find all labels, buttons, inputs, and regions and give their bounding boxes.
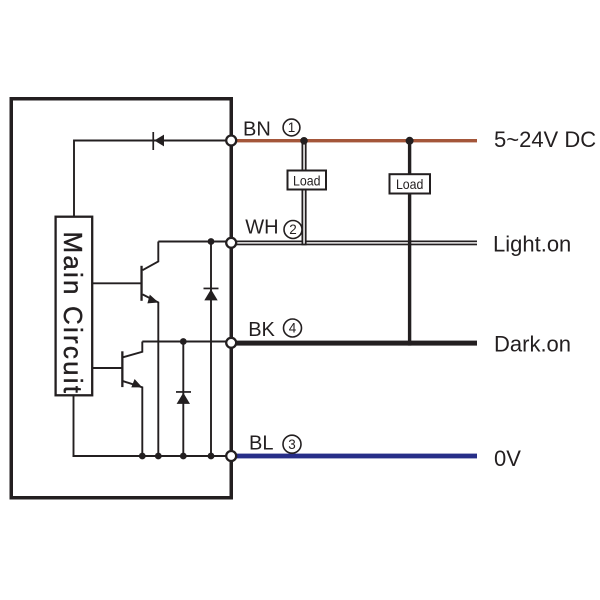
pin number 3	[283, 435, 301, 453]
diode D2 (WH clamp diode)	[204, 242, 219, 457]
label BN	[243, 118, 271, 140]
net label Light.on	[493, 232, 571, 257]
wire: main circuit bottom to BL rail	[73, 396, 75, 457]
outer device box	[11, 99, 231, 498]
blue wire (BL) 0V	[236, 454, 477, 459]
diode D1 (reverse-polarity protection on BN rail)	[152, 132, 164, 150]
junction dot on WH line	[208, 238, 215, 245]
terminal 4 (BK)	[226, 338, 236, 348]
terminal 3 (BL)	[226, 451, 236, 461]
svg-text:BL: BL	[249, 433, 273, 455]
pin number 2	[284, 221, 302, 239]
svg-text:2: 2	[289, 222, 297, 237]
net label 5~24V DC	[494, 127, 596, 152]
junction dots on BL rail	[139, 453, 215, 460]
wire: internal BK line from Q2 collector to terminal 4	[142, 341, 228, 343]
svg-text:Load: Load	[293, 172, 321, 188]
label BK	[248, 319, 275, 341]
junction dot on BK line	[180, 338, 187, 345]
transistor Q1 (upper NPN)	[140, 242, 158, 457]
wire: Q1 base from main circuit	[93, 282, 141, 284]
terminal 2 (WH)	[226, 238, 236, 248]
terminal 1 (BN)	[226, 136, 236, 146]
svg-text:1: 1	[288, 120, 296, 135]
svg-text:0V: 0V	[494, 446, 521, 471]
svg-text:Load: Load	[396, 176, 424, 192]
svg-text:BN: BN	[243, 118, 271, 140]
net label 0V	[494, 446, 521, 471]
svg-text:Dark.on: Dark.on	[494, 331, 571, 356]
svg-text:3: 3	[288, 437, 296, 452]
load 2 drop wire (black) with junction dot	[406, 137, 414, 346]
transistor Q2 (lower NPN)	[121, 342, 142, 457]
wire: internal BN rail from terminal 1 to left column	[74, 141, 228, 217]
brown wire 5~24V DC	[236, 139, 477, 142]
diode D3 (BK clamp diode)	[176, 342, 191, 457]
svg-text:5~24V DC: 5~24V DC	[494, 127, 596, 152]
black wire (BK)	[236, 341, 477, 346]
pin number 1	[283, 119, 300, 136]
wire: load 1 upper drop (white double line) with junction dot on BN wire	[300, 137, 308, 170]
load 2 box	[390, 174, 431, 193]
svg-text:Light.on: Light.on	[493, 232, 571, 257]
wire: Q2 base from main circuit	[93, 367, 122, 369]
wire: load 1 lower drop (white double line) joining WH wire	[302, 190, 307, 245]
white wire (WH) double line	[236, 241, 477, 246]
wire: internal WH line from Q1 collector to terminal 2	[158, 241, 228, 243]
svg-text:BK: BK	[248, 319, 275, 341]
svg-text:Main Circuit: Main Circuit	[58, 231, 88, 395]
label WH	[245, 217, 278, 239]
label BL	[249, 433, 273, 455]
net label Dark.on	[494, 331, 571, 356]
load 1 box	[288, 171, 327, 190]
wire: internal BL (0V) rail	[73, 455, 229, 457]
svg-text:WH: WH	[245, 217, 278, 239]
pin number 4	[284, 319, 302, 337]
svg-text:4: 4	[289, 321, 297, 336]
main circuit block	[56, 217, 93, 396]
